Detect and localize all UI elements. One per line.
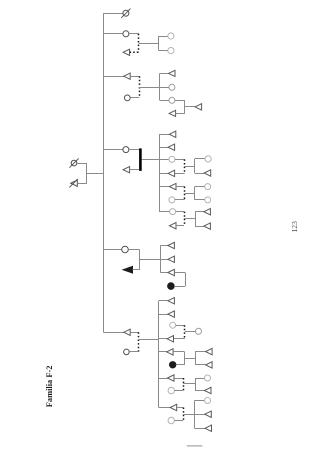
wire II-6 couple to children (139, 339, 159, 341)
dotted union bar II-3 couple (139, 76, 141, 98)
female II-2 (123, 31, 129, 37)
wire II-5b to union bar (133, 269, 140, 271)
wire stub III-11 (159, 211, 170, 213)
thick union bar II-4 couple (139, 148, 142, 171)
male III-11b partner (170, 223, 177, 229)
male III-9 (168, 170, 175, 176)
wire stub IV-10 (195, 364, 206, 366)
male III-6 (169, 131, 176, 137)
wire III-18b to union bar (176, 364, 185, 366)
male III-7 (168, 144, 175, 150)
wire stub IV-5 (195, 199, 205, 201)
dotted union bar III-17 couple (184, 325, 186, 339)
female IV-8 (196, 328, 202, 334)
male IV-12 (205, 387, 212, 393)
wire II-3 couple to children (139, 87, 160, 89)
male III-10 (170, 183, 177, 189)
female III-5 (169, 97, 175, 103)
wire stub III-20 (159, 407, 170, 409)
male II-4b partner (123, 167, 130, 173)
wire stub IV-2 (195, 158, 205, 160)
male IV-1 (195, 104, 202, 110)
wire stub III-1 (159, 36, 168, 38)
bracket III-20 children (194, 401, 196, 429)
bracket II-2 children (158, 36, 160, 51)
male III-12 (168, 242, 175, 248)
female III-18b partner (affected) (170, 362, 176, 368)
wire II-4 couple to children (142, 159, 169, 161)
wire tick child II-1 (104, 13, 123, 15)
wire stub III-15 (159, 300, 168, 302)
male III-5b partner (169, 110, 176, 116)
dotted union bar III-10 couple (184, 187, 186, 200)
wire tick child II-3 (104, 76, 124, 78)
union bar III-14 couple (185, 273, 187, 287)
union bar II-5 couple (139, 250, 141, 270)
wire III-10 to dotted union (176, 186, 185, 188)
male III-13 (168, 256, 175, 262)
wire stub III-10 (159, 186, 169, 188)
bracket III-18 children (195, 352, 197, 365)
wire stub III-4 (160, 87, 169, 89)
dotted union bar III-8 couple (184, 159, 186, 173)
wire III-19 couple to children (183, 383, 195, 385)
wire II-6b to dotted union (129, 351, 138, 353)
deceased slash I-1 (69, 159, 78, 168)
wire stub IV-9 (195, 351, 206, 353)
wire stub IV-7 (195, 226, 204, 228)
male III-17 (167, 336, 174, 342)
dotted union bar III-19 couple (183, 378, 185, 391)
wire III-20 couple to children (183, 414, 194, 416)
svg-text:Familia F-2: Familia F-2 (45, 366, 54, 408)
wire II-2 couple to children (139, 43, 159, 45)
wire III-8 to dotted union (175, 159, 185, 161)
female I-1 (deceased) (71, 160, 77, 166)
female II-6b partner (124, 349, 130, 355)
wire tick child II-2 (104, 33, 123, 35)
male II-3 (124, 73, 131, 79)
female II-5 (122, 246, 129, 253)
wire II-3 to dotted union (130, 76, 139, 78)
wire stub III-3 (160, 73, 169, 75)
wire I-1 to union bar (77, 163, 87, 165)
male II-6 (124, 329, 131, 335)
svg-text:123: 123 (290, 221, 299, 233)
wire III-5b to union bar (176, 113, 185, 115)
female III-4 (169, 84, 175, 90)
male IV-9 (206, 348, 213, 354)
wire stub III-18 (159, 351, 167, 353)
female IV-5 (205, 197, 211, 203)
bracket II-6 children (158, 301, 160, 408)
dotted union bar III-11 couple (184, 212, 186, 226)
wire II-2 to dotted union (129, 33, 139, 35)
male IV-10 (206, 362, 213, 368)
wire III-19b to dotted union (174, 390, 183, 392)
wire III-19 to dotted union (175, 378, 184, 380)
wire III-17 couple to child (185, 331, 196, 333)
deceased slash II-1 (121, 9, 130, 18)
female III-14b partner (affected) (168, 283, 175, 290)
dotted union bar II-2 couple (138, 34, 140, 53)
wire stub III-6 (159, 134, 169, 136)
male II-5b partner (affected) (123, 266, 132, 273)
wire stub IV-4 (195, 186, 205, 188)
bracket II-4 children (159, 134, 161, 211)
wire stub III-2 (159, 50, 168, 52)
wire II-3b to dotted union (130, 97, 139, 99)
wire stub IV-15 (195, 428, 206, 430)
dotted union bar III-20 couple (183, 408, 185, 421)
wire II-4 to thick union bar (129, 149, 139, 151)
wire III-20 to dotted union (177, 407, 183, 409)
female III-10b partner (169, 197, 175, 203)
wire III-20b to dotted union (174, 420, 183, 422)
male IV-6 (204, 209, 211, 215)
wire generation-I sibship spine (103, 13, 105, 332)
union bar III-18 couple (184, 352, 186, 365)
female II-4 (123, 147, 129, 153)
wire III-5 to union bar (175, 100, 185, 102)
footer dash mark (187, 445, 203, 447)
wire stub IV-6 (195, 211, 204, 213)
wire stub IV-14 (195, 414, 205, 416)
male IV-15 (205, 425, 212, 431)
female III-17b partner (170, 322, 176, 328)
wire stub III-17 (159, 338, 167, 340)
female IV-11 (205, 375, 211, 381)
union bar I-1/I-2 (86, 163, 88, 183)
wire II-4b to thick union bar (130, 169, 140, 171)
wire III-9 to dotted union (175, 173, 185, 175)
wire II-6 to dotted union (130, 332, 138, 334)
male IV-14 (205, 411, 212, 417)
bracket III-10 children (194, 187, 196, 200)
wire III-18 to union bar (174, 351, 185, 353)
dotted union bar II-6 couple (138, 332, 140, 352)
wire I-2 to union bar (77, 183, 87, 185)
wire III-10b to dotted union (175, 199, 185, 201)
male III-19 (168, 375, 175, 381)
wire tick child II-4 (104, 149, 123, 151)
bracket III-11 children (195, 212, 197, 226)
wire III-5 couple to child (185, 106, 195, 108)
wire parents to sibship spine (87, 173, 104, 175)
wire stub III-16 (159, 314, 168, 316)
bracket II-3 children (159, 73, 161, 100)
wire stub IV-3 (195, 173, 204, 175)
wire II-5 to union bar (128, 249, 139, 251)
male III-20 (170, 404, 177, 410)
wire III-11b to dotted union (176, 225, 184, 227)
female IV-13 (205, 398, 211, 404)
male III-14 (168, 269, 175, 275)
bracket III-8 children (194, 159, 196, 173)
wire III-18 couple to children (185, 358, 196, 360)
wire stub IV-13 (195, 400, 205, 402)
wire stub III-9 (159, 173, 168, 175)
wire III-11 to dotted union (176, 211, 184, 213)
union bar III-5 couple (184, 100, 186, 113)
female III-1 (168, 33, 174, 39)
wire III-14b to union bar (174, 286, 185, 288)
wire stub III-14 (160, 272, 168, 274)
wire III-8 couple to children (185, 166, 195, 168)
female II-1 (deceased) (123, 10, 129, 16)
female IV-2 (205, 156, 211, 162)
female II-3b partner (124, 95, 130, 101)
bracket II-5 children (160, 246, 162, 273)
deceased slash I-2 (69, 179, 77, 187)
wire stub IV-11 (195, 378, 205, 380)
female III-2 (168, 48, 174, 54)
wire stub III-12 (160, 245, 168, 247)
male IV-7 (204, 223, 211, 229)
female III-8 (169, 156, 175, 162)
female III-20b partner (168, 417, 174, 423)
wire stub III-7 (159, 147, 168, 149)
male III-3 (169, 70, 176, 76)
wire II-2b to dotted union (dotted) (130, 51, 139, 53)
male III-16 (168, 311, 175, 317)
male I-2 (deceased) (71, 180, 78, 186)
female IV-4 (205, 184, 211, 190)
wire III-10 couple to children (185, 193, 195, 195)
male III-18 (167, 349, 174, 355)
wire tick child II-5 (104, 249, 122, 251)
wire tick child II-6 (104, 332, 124, 334)
wire stub III-5 (160, 100, 169, 102)
female III-11 (170, 209, 176, 215)
male III-15 (168, 298, 175, 304)
wire II-5 couple to children (140, 259, 168, 261)
male II-2b partner (123, 49, 130, 55)
wire III-17b to dotted union (176, 325, 185, 327)
wire stub IV-12 (195, 390, 205, 392)
wire stub III-19 (159, 378, 168, 380)
bracket III-19 children (195, 378, 197, 391)
wire III-14 to union bar (174, 272, 185, 274)
female III-19b partner (168, 387, 174, 393)
male IV-3 (204, 170, 211, 176)
wire III-17 to dotted union (174, 338, 185, 340)
wire III-11 couple to children (184, 218, 195, 220)
